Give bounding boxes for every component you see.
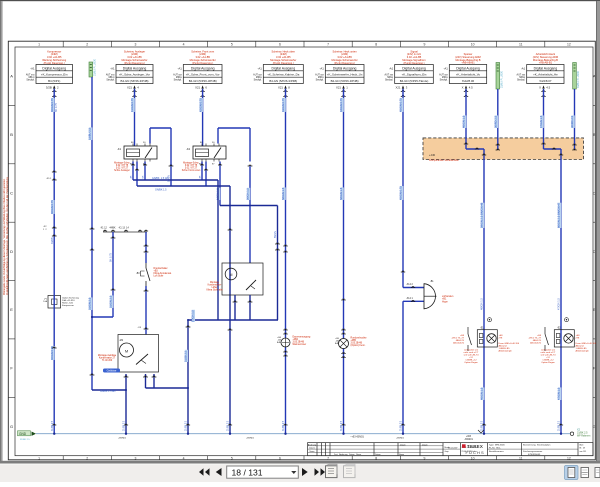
svg-text:43/GN 0.75: 43/GN 0.75 bbox=[281, 98, 285, 112]
svg-text:C: C bbox=[593, 190, 596, 195]
svg-text:Datum: Datum bbox=[375, 453, 381, 456]
frame column numbers bbox=[38, 41, 571, 460]
svg-text:Zust Änderung Datum Name: Zust Änderung Datum Name bbox=[334, 453, 361, 456]
svg-text:Gepr: Gepr bbox=[445, 450, 450, 453]
svg-text:GN/BK 1.5: GN/BK 1.5 bbox=[155, 189, 167, 192]
connector X3 (green plug) bbox=[573, 63, 580, 90]
svg-text:Digital Ausgang: Digital Ausgang bbox=[272, 66, 296, 70]
svg-text:-A1: -A1 bbox=[257, 67, 262, 71]
svg-text:-X5 1: -X5 1 bbox=[46, 178, 52, 180]
svg-text:-A1: -A1 bbox=[521, 67, 526, 71]
svg-text:-A1: -A1 bbox=[110, 67, 115, 71]
svg-text:-X1 12 44/BK -X1 13 14: -X1 12 44/BK -X1 13 14 bbox=[100, 228, 129, 230]
svg-text:Digital Ausgang: Digital Ausgang bbox=[456, 66, 480, 70]
svg-text:7: 7 bbox=[327, 456, 329, 460]
svg-text:1: 1 bbox=[38, 456, 40, 460]
toolbar first-page button bbox=[199, 468, 210, 476]
svg-text:Digital Ausgang: Digital Ausgang bbox=[123, 66, 147, 70]
svg-text:30/RD 2.5: 30/RD 2.5 bbox=[494, 115, 498, 128]
svg-text:11: 11 bbox=[519, 43, 523, 47]
svg-text:31/BU PLUS30: 31/BU PLUS30 bbox=[500, 70, 503, 88]
svg-text:58/GN 1.5: 58/GN 1.5 bbox=[339, 187, 343, 200]
svg-text:von 131: von 131 bbox=[580, 451, 587, 453]
svg-text:FL-Nr. 861..: FL-Nr. 861.. bbox=[489, 447, 502, 450]
svg-text:G: G bbox=[593, 424, 596, 429]
svg-text:4.5: 4.5 bbox=[546, 85, 550, 89]
svg-text:MP Rahmen: MP Rahmen bbox=[577, 435, 591, 438]
output module box U3 (Digital Ausgang) bbox=[173, 49, 222, 96]
svg-text:31/2B 2.5: 31/2B 2.5 bbox=[184, 350, 188, 362]
svg-text:B4-GN (5/P26-3/P4B): B4-GN (5/P26-3/P4B) bbox=[121, 79, 149, 83]
worklight E1 (lamp + switch) bbox=[451, 318, 520, 364]
svg-text:%22/8.07: %22/8.07 bbox=[539, 79, 552, 83]
svg-text:TEREX: TEREX bbox=[467, 444, 483, 449]
svg-text:M: M bbox=[230, 273, 233, 277]
wire bus H2 (y=186) bbox=[137, 186, 232, 434]
output module box U4 (Digital Ausgang) bbox=[253, 49, 303, 96]
svg-text:31/BK 2.5: 31/BK 2.5 bbox=[228, 420, 230, 431]
svg-text:Name: Name bbox=[399, 454, 404, 456]
svg-text:Zeichnungsnummer: Zeichnungsnummer bbox=[523, 450, 543, 453]
svg-text:E: E bbox=[10, 307, 13, 312]
svg-text:4: 4 bbox=[183, 43, 185, 47]
svg-text:-K1: -K1 bbox=[117, 147, 122, 151]
wire K1 loop (30 feed) bbox=[150, 128, 173, 186]
svg-text:vorhanden·amnicht vorh.=Y-Tsei: vorhanden·amnicht vorh.=Y-Tseit vorh.2B-… bbox=[541, 349, 557, 364]
wire W12 (U8 through +CD to worklight E2) bbox=[539, 89, 563, 434]
svg-text:X21: X21 bbox=[278, 85, 283, 89]
svg-text:31/BK 2.5: 31/BK 2.5 bbox=[124, 420, 126, 431]
wire W5 (U4 down to ground) bbox=[281, 89, 287, 434]
svg-text:8: 8 bbox=[375, 456, 377, 460]
output module box U2 (Digital Ausgang) bbox=[106, 49, 153, 96]
svg-text:A: A bbox=[10, 74, 13, 79]
ground terminal X04D1 bbox=[464, 430, 484, 441]
svg-text:Bezeichnung Stromlaufplan: Bezeichnung Stromlaufplan bbox=[523, 444, 551, 447]
left margin red copyright note bbox=[3, 177, 9, 295]
svg-text:Digital Ausgang: Digital Ausgang bbox=[333, 66, 357, 70]
svg-text:Type MHL320D: Type MHL320D bbox=[489, 445, 505, 447]
svg-text:31/BK 2.5: 31/BK 2.5 bbox=[20, 439, 30, 441]
toolbar next-page button bbox=[302, 468, 308, 476]
output module box U7 (Digital Ausgang) bbox=[439, 52, 487, 96]
svg-text:18 / 131: 18 / 131 bbox=[232, 467, 263, 477]
toolbar continuous icon bbox=[581, 468, 589, 478]
svg-text:D: D bbox=[593, 249, 596, 254]
svg-text:47/GN 1.5: 47/GN 1.5 bbox=[539, 115, 543, 128]
svg-text:31/BK 2.5: 31/BK 2.5 bbox=[401, 420, 403, 431]
svg-text:58/GN 1.5: 58/GN 1.5 bbox=[281, 187, 285, 200]
svg-text:1: 1 bbox=[38, 43, 40, 47]
svg-text:+W3: +W3 bbox=[466, 435, 472, 438]
worklight E2 (lamp + switch) bbox=[528, 318, 597, 364]
svg-text:Digital Ausgang: Digital Ausgang bbox=[191, 66, 215, 70]
wire W9 (to pressure switch S1) bbox=[144, 232, 149, 263]
svg-text:6: 6 bbox=[279, 43, 281, 47]
svg-text:4R: 4R bbox=[131, 175, 133, 178]
svg-text:5/2B: 5/2B bbox=[46, 85, 52, 89]
svg-text:B: B bbox=[10, 132, 13, 137]
svg-text:3: 3 bbox=[134, 43, 136, 47]
window left edge strip bbox=[0, 1, 3, 462]
svg-text:Blatt: Blatt bbox=[580, 443, 584, 446]
svg-text:+K_Scheinwerfer_Heck_Un: +K_Scheinwerfer_Heck_Un bbox=[327, 73, 363, 77]
svg-text:Datum: Datum bbox=[400, 444, 406, 447]
svg-text:G: G bbox=[10, 424, 13, 429]
ground bus GND bbox=[18, 420, 591, 441]
svg-text:%22/8.06: %22/8.06 bbox=[462, 79, 475, 83]
svg-text:-K2: -K2 bbox=[186, 147, 191, 151]
svg-text:+B5N01: +B5N01 bbox=[118, 438, 127, 440]
svg-text:FUCHS: FUCHS bbox=[466, 450, 485, 455]
svg-text:D: D bbox=[10, 249, 13, 254]
svg-text:5: 5 bbox=[231, 456, 233, 460]
svg-text:E: E bbox=[593, 307, 596, 312]
svg-text:11: 11 bbox=[519, 456, 523, 460]
svg-text:B4-GN (5/P26-3/P4B): B4-GN (5/P26-3/P4B) bbox=[269, 79, 297, 83]
svg-text:45/GN 0.75: 45/GN 0.75 bbox=[399, 98, 403, 112]
wire K2 pins down bbox=[200, 162, 222, 206]
svg-text:Datum: Datum bbox=[422, 444, 428, 447]
svg-text:10: 10 bbox=[471, 43, 475, 47]
output module box U6 (Digital Ausgang) bbox=[385, 49, 434, 96]
toolbar last-page button bbox=[315, 468, 326, 476]
svg-text:30/RD 2.5: 30/RD 2.5 bbox=[570, 115, 574, 128]
output module box U1 (Digital Ausgang) bbox=[26, 49, 73, 96]
horn B1 bbox=[406, 281, 454, 309]
svg-text:+K_Schw_Front_vorn_Vor: +K_Schw_Front_vorn_Vor bbox=[186, 73, 220, 77]
wire K1 pins down bbox=[131, 162, 147, 187]
svg-text:-A1: -A1 bbox=[319, 67, 324, 71]
wire W13 (connector X3 into +CD) bbox=[570, 89, 577, 150]
wire bus H1 (y=180) bbox=[133, 177, 218, 320]
svg-text:12: 12 bbox=[567, 456, 571, 460]
output module box U5 (Digital Ausgang) bbox=[315, 49, 364, 96]
svg-text:3: 3 bbox=[134, 456, 136, 460]
beacon lamp B5 (on W6) bbox=[335, 329, 367, 358]
svg-text:C: C bbox=[10, 190, 13, 195]
wire W4 (U3 to relay K2 coil) bbox=[198, 89, 203, 146]
svg-text:12: 12 bbox=[567, 43, 571, 47]
svg-text:-A1: -A1 bbox=[30, 67, 35, 71]
svg-text:B4-GN (5/P26-3/P4B): B4-GN (5/P26-3/P4B) bbox=[331, 79, 359, 83]
wire W1 (output U1 to ground bus) bbox=[43, 89, 58, 434]
svg-text:Bl. 18: Bl. 18 bbox=[580, 448, 585, 450]
node label E-HSN01 bbox=[350, 435, 364, 439]
wire W6 (U5 down to ground) bbox=[339, 89, 345, 434]
toolbar facing icon (clipped) bbox=[595, 468, 600, 478]
svg-text:+B5N01: +B5N01 bbox=[396, 438, 405, 440]
wire M2 pins to bottom bus bbox=[92, 350, 189, 434]
svg-text:BK 0.75: BK 0.75 bbox=[55, 102, 58, 112]
svg-text:40/GN 0.75: 40/GN 0.75 bbox=[50, 200, 54, 214]
highlighted connector area +CD (orange) bbox=[423, 138, 584, 162]
svg-text:GN/BK 1.5 BN: GN/BK 1.5 BN bbox=[100, 390, 116, 393]
svg-text:57/GN 1.5: 57/GN 1.5 bbox=[191, 310, 195, 322]
wire W2 (connector X1 down to blower feed) bbox=[88, 77, 95, 390]
fuse holder F1 (on W1) bbox=[43, 296, 79, 309]
svg-text:7: 7 bbox=[327, 43, 329, 47]
frame row letters bbox=[8, 74, 596, 429]
blower box M2 bbox=[98, 335, 159, 373]
svg-text:31/BK 2.5: 31/BK 2.5 bbox=[283, 420, 285, 431]
svg-text:31/2B: 31/2B bbox=[51, 237, 54, 244]
wire W9b (switch S1 to blower box M2) bbox=[138, 286, 149, 335]
svg-text:-M2: -M2 bbox=[119, 339, 124, 342]
svg-text:X21: X21 bbox=[336, 85, 341, 89]
svg-text:41/GN 0.75: 41/GN 0.75 bbox=[130, 98, 134, 112]
svg-text:31/GN 2.5: 31/GN 2.5 bbox=[88, 297, 92, 310]
svg-text:Bestellnummer: Bestellnummer bbox=[489, 450, 504, 453]
svg-text:-X14 1: -X14 1 bbox=[406, 298, 413, 300]
svg-text:Digital Ausgang: Digital Ausgang bbox=[534, 66, 558, 70]
wire K2 loop (30 feed) bbox=[218, 128, 252, 263]
svg-text:8: 8 bbox=[375, 43, 377, 47]
svg-text:X21: X21 bbox=[127, 85, 132, 89]
relay K2 bbox=[182, 142, 226, 172]
svg-text:31/BU PLUS30: 31/BU PLUS30 bbox=[577, 70, 580, 88]
svg-text:A: A bbox=[593, 74, 596, 79]
svg-text:2: 2 bbox=[86, 43, 88, 47]
svg-text:5R: 5R bbox=[143, 175, 145, 178]
svg-text:−+E HSN01: −+E HSN01 bbox=[350, 435, 364, 439]
connector row X1 (y=232) bbox=[100, 228, 148, 233]
svg-text:+K_Kompressor_Ein: +K_Kompressor_Ein bbox=[41, 73, 68, 77]
toolbar prev-view icon bbox=[326, 464, 338, 477]
wire W8 (connector row down, jog to W2) bbox=[91, 232, 116, 318]
svg-text:vorhanden·amnicht vorh.=Y-Tsei: vorhanden·amnicht vorh.=Y-Tseit vorh.2B-… bbox=[464, 349, 480, 364]
svg-text:B4-GN (5/P26-3/P4B): B4-GN (5/P26-3/P4B) bbox=[189, 79, 217, 83]
svg-text:B4-GN (5/P25-TEnde): B4-GN (5/P25-TEnde) bbox=[400, 79, 429, 83]
condenser fan box M1 bbox=[206, 263, 263, 295]
wire H3 (y=205.5 to right drop) bbox=[220, 206, 280, 321]
svg-text:56/GN 1.5: 56/GN 1.5 bbox=[246, 188, 250, 200]
svg-text:4790355043: 4790355043 bbox=[528, 454, 541, 456]
output module box U8 (Digital Ausgang) bbox=[517, 52, 564, 96]
svg-text:M: M bbox=[125, 348, 128, 353]
svg-text:44/GN 0.75: 44/GN 0.75 bbox=[339, 98, 343, 112]
svg-text:GND: GND bbox=[19, 432, 27, 436]
svg-text:+CD: +CD bbox=[429, 153, 436, 157]
svg-text:+K_Scheinw_Kabine_Da: +K_Scheinw_Kabine_Da bbox=[267, 73, 299, 77]
svg-text:4R: 4R bbox=[200, 175, 202, 178]
svg-text:46/GN 1.5: 46/GN 1.5 bbox=[480, 298, 484, 310]
svg-text:47/GN 1.5: 47/GN 1.5 bbox=[557, 387, 561, 400]
svg-text:-A1: -A1 bbox=[443, 67, 448, 71]
svg-text:21.04.2007: 21.04.2007 bbox=[448, 447, 457, 449]
svg-text:55/GN: 55/GN bbox=[274, 231, 277, 238]
toolbar next-view icon bbox=[344, 464, 356, 477]
svg-text:X: X bbox=[539, 85, 541, 89]
wire W7 (U6 to horn B1) bbox=[399, 89, 424, 288]
svg-text:Digital Ausgang: Digital Ausgang bbox=[42, 66, 66, 70]
svg-text:+K_Arbeitslicht_Vo: +K_Arbeitslicht_Vo bbox=[456, 73, 481, 77]
svg-text:42/GN 0.75: 42/GN 0.75 bbox=[198, 98, 202, 112]
svg-text:Zuwiderhandlungen verpflichten: Zuwiderhandlungen verpflichten zu Schade… bbox=[6, 177, 9, 295]
wire W7b (horn B1 return to ground) bbox=[403, 300, 424, 434]
svg-text:5: 5 bbox=[231, 43, 233, 47]
svg-text:-A1: -A1 bbox=[177, 67, 182, 71]
svg-text:Komponenten-Verteilerdose: Komponenten-Verteilerdose bbox=[429, 159, 459, 162]
svg-text:-A1: -A1 bbox=[389, 67, 394, 71]
svg-text:X21: X21 bbox=[195, 85, 200, 89]
svg-text:4.5: 4.5 bbox=[469, 85, 473, 89]
svg-text:2: 2 bbox=[86, 456, 88, 460]
buzzer B4 (on W5) bbox=[277, 329, 311, 356]
viewer toolbar bbox=[0, 461, 600, 482]
svg-text:Montage-Schw.3.02 / 8T T53.02: Montage-Schw.3.02 / 8T T53.02 / 8T 2TSch… bbox=[114, 162, 130, 173]
svg-text:4: 4 bbox=[183, 456, 185, 460]
toolbar prev-page button bbox=[216, 468, 222, 476]
relay K1 bbox=[114, 142, 157, 172]
svg-text:+K_Signalhorn_Ein: +K_Signalhorn_Ein bbox=[402, 73, 427, 77]
wire W3 (U2 to relay K1 coil) bbox=[130, 89, 135, 146]
svg-text:47/GN 1.5: 47/GN 1.5 bbox=[557, 298, 561, 310]
toolbar single-page icon (selected) bbox=[565, 466, 579, 480]
svg-text:45/GN 0.75: 45/GN 0.75 bbox=[399, 186, 403, 200]
connector X2 (green plug) bbox=[496, 63, 503, 90]
svg-text:6: 6 bbox=[279, 456, 281, 460]
svg-text:B4 (5/P1): B4 (5/P1) bbox=[48, 79, 60, 83]
svg-text:31/GN 2.5: 31/GN 2.5 bbox=[109, 295, 113, 308]
svg-text:60/GN 2.5 BN/GN 47: 60/GN 2.5 BN/GN 47 bbox=[557, 202, 561, 228]
svg-text:Digital Ausgang: Digital Ausgang bbox=[402, 66, 426, 70]
window right scrollbar strip bbox=[596, 1, 600, 462]
svg-text:9: 9 bbox=[423, 43, 425, 47]
svg-text:31/BU PLUS30: 31/BU PLUS30 bbox=[93, 58, 96, 76]
svg-text:+K_Schw_Ausleger_Vor: +K_Schw_Ausleger_Vor bbox=[119, 73, 150, 77]
svg-text:BK 0.75: BK 0.75 bbox=[110, 252, 113, 262]
svg-text:-X14 2: -X14 2 bbox=[406, 284, 413, 286]
svg-text:Gebläse: Gebläse bbox=[107, 369, 117, 373]
svg-text:10: 10 bbox=[471, 456, 475, 460]
svg-text:46/GN 1.5: 46/GN 1.5 bbox=[480, 387, 484, 400]
svg-text:31/BK 2.5: 31/BK 2.5 bbox=[186, 420, 188, 431]
svg-text:+B5N01: +B5N01 bbox=[246, 438, 255, 440]
svg-text:31/BK 2.5: 31/BK 2.5 bbox=[559, 420, 561, 431]
wire M1 pins loops bbox=[186, 295, 278, 434]
pressure switch S1 bbox=[136, 263, 172, 286]
svg-text:X21: X21 bbox=[396, 85, 401, 89]
toolbar page input bbox=[227, 466, 299, 478]
svg-text:15/BU 2.5: 15/BU 2.5 bbox=[88, 128, 92, 140]
svg-text:B: B bbox=[593, 132, 596, 137]
node labels under ground bus bbox=[118, 438, 405, 440]
svg-text:+K_Arbeitslicht_He: +K_Arbeitslicht_He bbox=[533, 73, 558, 77]
svg-text:40/GN 0.75: 40/GN 0.75 bbox=[50, 98, 54, 112]
svg-text:GN/BK 1.5 GN: GN/BK 1.5 GN bbox=[152, 177, 169, 180]
svg-text:31/BK 2.5: 31/BK 2.5 bbox=[341, 420, 343, 431]
window top edge bbox=[0, 0, 600, 1]
title block bbox=[308, 443, 593, 456]
wire W11 (connector X2 into +CD) bbox=[494, 89, 501, 150]
wire W10 (U7 through +CD to worklight E1) bbox=[462, 89, 486, 434]
svg-text:X: X bbox=[462, 85, 464, 89]
svg-text:31/BK 2.5: 31/BK 2.5 bbox=[52, 420, 54, 431]
svg-text:59/GN 2.5 BN/GN 46: 59/GN 2.5 BN/GN 46 bbox=[480, 202, 484, 228]
svg-text:9: 9 bbox=[423, 456, 425, 460]
svg-text:46/GN 1.5: 46/GN 1.5 bbox=[462, 115, 466, 128]
connector X1 (green plug) bbox=[89, 58, 96, 77]
svg-text:31/BK 2.5: 31/BK 2.5 bbox=[482, 420, 484, 431]
